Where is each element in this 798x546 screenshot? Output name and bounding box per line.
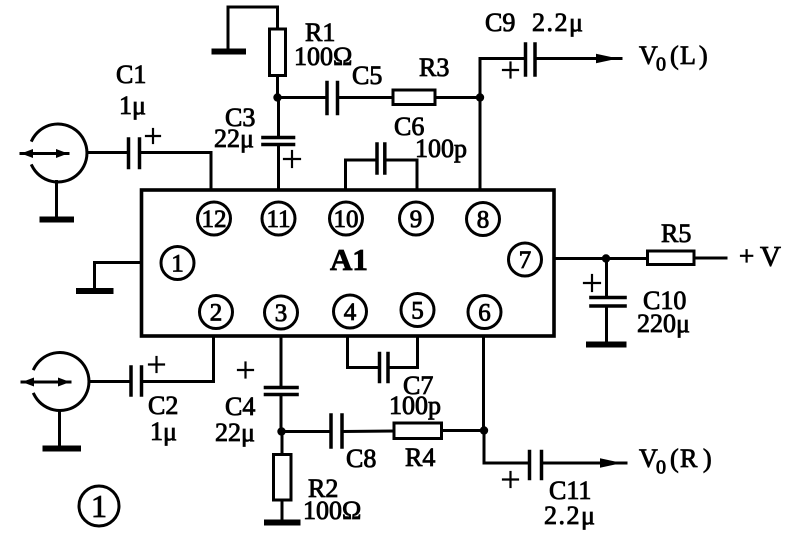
svg-text:R3: R3 (419, 53, 449, 82)
wire: C1 to pin 12 (141, 153, 211, 191)
wire: R5 to +V (694, 257, 726, 260)
svg-text:C9: C9 (485, 8, 515, 37)
ground at J1 (43, 182, 72, 220)
pin 5 (401, 294, 434, 327)
svg-text:+: + (739, 241, 754, 271)
wire: J1 to C1 (87, 151, 127, 154)
wire: C4 to node R1n (280, 395, 283, 432)
capacitor C9 (526, 44, 536, 75)
resistor R3 (393, 90, 435, 105)
ground at pin 1 (79, 288, 111, 294)
ground at C10 (589, 342, 624, 348)
wire: node L2 up to C9 (480, 59, 524, 98)
wire: C8 to R4 (343, 430, 394, 434)
resistor R4 (394, 423, 442, 439)
junction node L2 (476, 93, 484, 101)
wire: pin 6 to node R2n (482, 336, 485, 431)
svg-text:8: 8 (477, 207, 490, 234)
junction node R2n (480, 426, 488, 434)
pin 12 (198, 202, 231, 235)
svg-text:5: 5 (411, 298, 424, 325)
capacitor C7 (380, 354, 389, 382)
svg-text:C2: C2 (148, 391, 178, 420)
C4 polarity + (238, 363, 253, 378)
capacitor C10 (591, 298, 625, 307)
svg-text:C4: C4 (225, 392, 255, 421)
wire: R4 to node R2n (442, 429, 485, 432)
wire: pin 10 to C6 (346, 160, 377, 190)
figure number 1 (79, 486, 119, 526)
IC label A1 (330, 242, 368, 277)
wire: C3 to pin 11 (277, 146, 280, 190)
pin 8 (467, 203, 500, 236)
svg-text:100p: 100p (415, 134, 467, 163)
pin 9 (400, 202, 433, 235)
svg-text:(: ( (670, 41, 679, 70)
svg-text:11: 11 (266, 206, 290, 233)
pin 11 (262, 202, 295, 235)
svg-text:C5: C5 (352, 61, 382, 90)
wire: R1 to node L1 (276, 76, 279, 98)
svg-text:V: V (760, 241, 781, 273)
svg-text:100p: 100p (389, 391, 441, 420)
svg-text:R4: R4 (405, 443, 435, 472)
wire: node L1 to C3 (277, 98, 280, 137)
pin 4 (334, 295, 367, 328)
wire: pin 4 to C7 (348, 336, 379, 368)
svg-text:L: L (680, 41, 696, 70)
svg-text:22μ: 22μ (215, 418, 255, 447)
junction node L1 (273, 93, 281, 101)
C3 polarity + (284, 151, 300, 167)
capacitor C6 (377, 144, 385, 173)
ground at R2 (267, 520, 298, 526)
wire: node L2 to pin 8 (479, 98, 482, 191)
svg-text:4: 4 (344, 299, 357, 326)
pin 2 (200, 296, 233, 329)
wire: C10 to ground (605, 306, 608, 342)
svg-text:2: 2 (210, 300, 223, 327)
input jack J1 (left channel source) (21, 124, 87, 182)
pin 7 (509, 243, 542, 276)
wire: pin 3 to C4 (280, 336, 283, 387)
svg-text:1μ: 1μ (150, 417, 177, 446)
svg-text:2.2μ: 2.2μ (532, 8, 584, 37)
ground at J2 (46, 411, 79, 449)
svg-text:9: 9 (410, 206, 423, 233)
resistor R2 (274, 455, 292, 501)
C11 polarity + (503, 472, 518, 487)
output label Vo(R) (639, 444, 712, 479)
ground at R1 top (215, 7, 278, 52)
capacitor C11 (530, 452, 542, 479)
pin 1 (161, 247, 194, 280)
svg-text:R5: R5 (661, 219, 691, 248)
svg-text:): ) (703, 444, 712, 473)
svg-text:12: 12 (202, 206, 227, 233)
svg-text:7: 7 (519, 247, 532, 274)
svg-text:1: 1 (91, 488, 107, 524)
svg-text:22μ: 22μ (214, 124, 254, 153)
output label Vo(L) (639, 41, 708, 76)
capacitor C4 (266, 388, 298, 395)
wire: pin 1 to ground (95, 263, 142, 290)
svg-text:C1: C1 (116, 60, 146, 89)
input jack J2 (right channel source) (22, 353, 89, 411)
wire: R2 to ground (281, 500, 284, 520)
svg-text:(: ( (670, 444, 679, 473)
svg-text:2.2μ: 2.2μ (544, 501, 596, 530)
capacitor C1 (129, 139, 140, 168)
junction node R1n (277, 427, 285, 435)
svg-text:3: 3 (275, 300, 288, 327)
svg-text:100Ω: 100Ω (294, 42, 352, 71)
C9 polarity + (503, 63, 518, 78)
svg-text:1: 1 (171, 251, 184, 278)
svg-text:C8: C8 (346, 444, 376, 473)
pin 3 (265, 296, 298, 329)
svg-text:100Ω: 100Ω (303, 496, 361, 525)
capacitor C8 (331, 415, 342, 447)
wire: node P to C10 (605, 259, 608, 298)
svg-text:10: 10 (334, 206, 359, 233)
C10 polarity + (584, 275, 600, 291)
wire: pin 7 to node P (554, 257, 647, 260)
wire: C5 to R3 (339, 96, 394, 99)
svg-text:1μ: 1μ (119, 91, 146, 120)
svg-text:R: R (680, 444, 698, 473)
wire+arrow: C9 to Vo(L) (537, 54, 622, 63)
wire: C6 to pin 9 (386, 160, 417, 190)
resistor R5 (648, 251, 695, 265)
C2 polarity + (149, 357, 164, 372)
capacitor C3 (263, 138, 294, 145)
wire: C7 to pin 5 (389, 336, 418, 368)
resistor R1 (270, 29, 286, 76)
svg-text:0: 0 (656, 54, 666, 76)
capacitor C5 (327, 83, 338, 114)
op-amp IC A1 body (142, 190, 555, 336)
capacitor C2 (131, 367, 142, 395)
svg-text:): ) (699, 41, 708, 70)
wire: R3 to node L2 (435, 96, 480, 99)
junction node P (supply) (602, 254, 610, 262)
wire: node R1n to C8 (282, 430, 331, 433)
C1 polarity + (146, 129, 160, 143)
wire: node R2n down to C11 (484, 431, 528, 464)
pin 6 (468, 296, 501, 329)
svg-text:6: 6 (478, 300, 491, 327)
wire: J2 to C2 (89, 380, 129, 383)
svg-text:220μ: 220μ (637, 309, 690, 338)
svg-text:A1: A1 (330, 242, 368, 277)
wire: node R1n to R2 (281, 432, 284, 455)
wire+arrow: C11 to Vo(R) (543, 458, 626, 467)
wire: node L1 to C5 (278, 96, 327, 99)
wire: C2 to pin 2 (143, 336, 214, 382)
pin 10 (330, 202, 363, 235)
svg-text:0: 0 (656, 457, 666, 479)
